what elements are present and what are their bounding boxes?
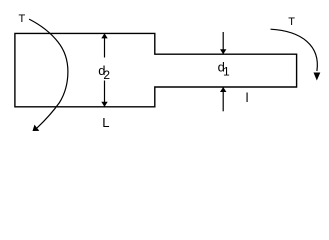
arrowhead d1 up	[220, 87, 226, 92]
arrowhead left torque	[33, 125, 40, 131]
dimension line d2 lower segment	[104, 81, 106, 107]
svg-text:T: T	[19, 13, 26, 25]
arrowhead d2 up	[101, 33, 107, 38]
torque arc right	[271, 29, 318, 71]
arrowhead d2 down	[101, 102, 107, 107]
svg-text:L: L	[102, 115, 109, 130]
svg-text:l: l	[246, 90, 249, 105]
svg-text:2: 2	[103, 68, 110, 82]
arrowhead d1 down	[220, 49, 226, 54]
dimension line d1 upper segment	[222, 32, 224, 54]
dimension line d2 upper segment	[104, 34, 106, 58]
svg-text:1: 1	[223, 65, 230, 79]
svg-text:T: T	[288, 16, 295, 28]
stepped shaft outline	[15, 33, 297, 106]
dimension line d1 lower segment	[222, 88, 224, 112]
arrowhead right torque	[314, 73, 321, 81]
torque arc left	[29, 19, 68, 128]
